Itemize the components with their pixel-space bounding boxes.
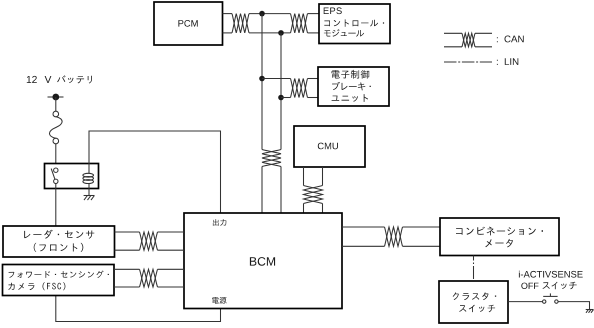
- legend: CAN twisted pair symbol: [444, 33, 492, 47]
- LIN wire: meter to cluster switch: [473, 256, 475, 282]
- battery B+ terminal: [48, 94, 64, 101]
- wire: CMU twist to BCM: [303, 204, 305, 214]
- ground: OFF switch: [586, 310, 594, 313]
- wire: to brake unit twist: [262, 78, 291, 80]
- ECU box EPS control module: [319, 4, 390, 44]
- wire: CAN bus vertical pair: [261, 14, 263, 150]
- legend: LIN dash-dot line: [444, 61, 492, 63]
- ECU box BCM: [184, 213, 342, 309]
- label electronic brake unit: [332, 70, 371, 102]
- pin label: output: [213, 219, 226, 226]
- wire: FSC pair: [114, 268, 140, 270]
- CAN twist: vertical bus: [262, 150, 281, 167]
- sensor box radar sensor (front): [3, 226, 115, 257]
- ground: relay coil: [84, 196, 95, 201]
- wire fuse to relay: [55, 144, 57, 168]
- wire: cluster switch to OFF switch: [508, 301, 542, 303]
- junction: CAN-H tap: [259, 11, 265, 17]
- label CMU: [318, 143, 338, 150]
- junction: CAN-L tap: [278, 30, 284, 36]
- CAN twist: CMU: [304, 186, 323, 204]
- label forward sensing camera: [8, 271, 109, 291]
- ECU box electronic brake unit: [318, 67, 389, 106]
- wire: PCM CAN-H: [223, 13, 233, 15]
- wire: CMU pair: [303, 167, 305, 186]
- label combination meter: [456, 227, 543, 248]
- box combination meter: [440, 218, 559, 256]
- label BCM: [250, 257, 275, 266]
- wire: BCM to meter pair: [342, 226, 385, 228]
- CAN twist: brake unit: [291, 79, 308, 98]
- label EPS / control module: [324, 7, 342, 14]
- wire: twist to meter box: [403, 226, 441, 228]
- CAN twist: FSC: [140, 269, 158, 287]
- wire battery to fuse: [55, 97, 57, 111]
- ECU box CMU: [294, 126, 365, 167]
- pin label: power: [212, 297, 227, 304]
- wire relay coil to BCM output (up/right/down): [89, 131, 221, 213]
- label radar sensor (front): [24, 230, 94, 252]
- wire FSC camera to BCM power (bottom bus): [56, 296, 221, 322]
- relay box: [45, 164, 99, 189]
- legend label : CAN: [497, 36, 524, 43]
- legend label : LIN: [497, 58, 518, 65]
- wire relay switch to radar sensor: [55, 184, 57, 227]
- fuse F1: [49, 111, 62, 144]
- box cluster switch: [439, 281, 508, 323]
- wire: radar twist to BCM: [158, 231, 185, 233]
- CAN twist: radar: [140, 232, 158, 250]
- ECU box PCM: [154, 2, 223, 45]
- wire: OFF switch to ground: [558, 302, 589, 310]
- relay switch contact: [51, 168, 58, 184]
- label i-ACTIVSENSE OFF switch: [519, 271, 583, 278]
- CAN twist: combination meter: [385, 227, 403, 246]
- wire: FSC twist to BCM: [158, 268, 185, 270]
- label: 12 V battery: [27, 75, 92, 83]
- wire: twist to brake unit box: [308, 78, 319, 80]
- wire: PCM CAN-L: [223, 32, 233, 34]
- junction: brake unit CAN-H tap: [259, 76, 265, 82]
- switch: i-ACTIVSENSE OFF (momentary): [543, 293, 559, 303]
- wire: twist to EPS box: [308, 13, 320, 15]
- CAN twist: EPS: [291, 14, 308, 33]
- wire: CAN-L to EPS twist: [249, 32, 291, 34]
- sensor box forward sensing camera (FSC): [3, 265, 115, 296]
- CAN twist: PCM: [232, 14, 249, 33]
- wire: vertical pair to BCM: [261, 167, 263, 214]
- relay coil: [83, 164, 94, 196]
- wire: CAN-H to EPS twist: [249, 13, 291, 15]
- wire: radar pair: [115, 231, 140, 233]
- label cluster switch: [453, 292, 497, 312]
- junction: brake unit CAN-L tap: [278, 95, 284, 101]
- label PCM: [178, 20, 197, 27]
